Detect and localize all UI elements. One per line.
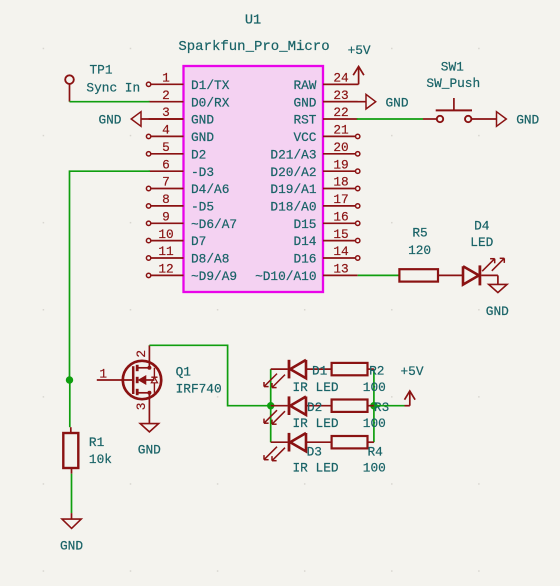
svg-text:GND: GND	[516, 112, 539, 127]
svg-text:14: 14	[333, 244, 349, 259]
svg-text:U1: U1	[245, 13, 261, 28]
svg-text:GND: GND	[293, 95, 316, 110]
svg-text:R5: R5	[412, 226, 427, 241]
svg-text:3: 3	[134, 403, 149, 411]
svg-text:GND: GND	[98, 112, 121, 127]
svg-text:10: 10	[158, 227, 173, 242]
svg-text:D20/A2: D20/A2	[270, 165, 316, 180]
svg-text:1: 1	[162, 71, 170, 86]
svg-text:6: 6	[162, 157, 170, 172]
svg-text:Sync In: Sync In	[86, 81, 140, 96]
svg-text:17: 17	[333, 192, 348, 207]
svg-text:D1/TX: D1/TX	[191, 78, 230, 93]
svg-text:D16: D16	[293, 252, 316, 267]
svg-text:RAW: RAW	[293, 78, 316, 93]
svg-text:20: 20	[333, 140, 348, 155]
svg-text:21: 21	[333, 123, 349, 138]
svg-text:IRF740: IRF740	[176, 382, 222, 397]
svg-text:4: 4	[162, 123, 170, 138]
svg-text:100: 100	[363, 380, 386, 395]
svg-text:-D5: -D5	[191, 200, 214, 215]
svg-text:VCC: VCC	[293, 130, 316, 145]
svg-text:TP1: TP1	[89, 62, 112, 77]
svg-text:D8/A8: D8/A8	[191, 252, 229, 267]
svg-text:10k: 10k	[89, 452, 112, 467]
svg-text:RST: RST	[293, 113, 316, 128]
svg-text:100: 100	[363, 461, 386, 476]
svg-text:Q1: Q1	[176, 364, 192, 379]
svg-text:120: 120	[408, 243, 431, 258]
svg-text:R3: R3	[374, 400, 389, 415]
svg-text:GND: GND	[191, 130, 214, 145]
svg-text:GND: GND	[138, 443, 161, 458]
svg-text:12: 12	[158, 262, 173, 277]
svg-text:R4: R4	[368, 444, 384, 459]
svg-text:D19/A1: D19/A1	[270, 182, 316, 197]
svg-text:D2: D2	[307, 400, 322, 415]
svg-text:23: 23	[333, 88, 348, 103]
svg-text:R2: R2	[369, 363, 384, 378]
svg-text:GND: GND	[191, 113, 214, 128]
svg-text:D18/A0: D18/A0	[270, 200, 316, 215]
svg-text:D2: D2	[191, 147, 206, 162]
svg-text:7: 7	[162, 175, 170, 190]
svg-text:+5V: +5V	[348, 43, 371, 58]
svg-text:D21/A3: D21/A3	[270, 147, 316, 162]
svg-text:LED: LED	[470, 235, 493, 250]
svg-text:D7: D7	[191, 234, 206, 249]
svg-text:IR LED: IR LED	[293, 380, 339, 395]
svg-text:16: 16	[333, 210, 348, 225]
svg-text:-D3: -D3	[191, 165, 214, 180]
svg-text:~D6/A7: ~D6/A7	[191, 217, 237, 232]
svg-text:IR LED: IR LED	[293, 416, 339, 431]
svg-text:GND: GND	[386, 95, 409, 110]
svg-text:100: 100	[363, 416, 386, 431]
svg-text:19: 19	[333, 157, 348, 172]
svg-text:2: 2	[134, 350, 149, 358]
svg-text:~D10/A10: ~D10/A10	[255, 269, 316, 284]
svg-text:D15: D15	[293, 217, 316, 232]
svg-text:SW1: SW1	[441, 59, 464, 74]
svg-text:3: 3	[162, 105, 170, 120]
svg-text:D14: D14	[293, 234, 316, 249]
svg-text:D1: D1	[312, 363, 328, 378]
svg-text:GND: GND	[60, 538, 83, 553]
svg-text:D4/A6: D4/A6	[191, 182, 229, 197]
svg-text:+5V: +5V	[400, 364, 423, 379]
svg-text:15: 15	[333, 227, 348, 242]
svg-text:IR LED: IR LED	[293, 461, 339, 476]
svg-text:11: 11	[158, 244, 174, 259]
svg-text:D3: D3	[307, 444, 322, 459]
svg-text:1: 1	[99, 367, 107, 382]
svg-text:8: 8	[162, 192, 170, 207]
svg-text:13: 13	[333, 262, 348, 277]
svg-text:18: 18	[333, 175, 348, 190]
svg-text:SW_Push: SW_Push	[426, 76, 480, 91]
svg-text:R1: R1	[89, 435, 105, 450]
svg-text:24: 24	[333, 71, 349, 86]
svg-text:5: 5	[162, 140, 170, 155]
svg-text:D4: D4	[474, 219, 490, 234]
svg-text:22: 22	[333, 105, 348, 120]
svg-text:~D9/A9: ~D9/A9	[191, 269, 237, 284]
svg-text:D0/RX: D0/RX	[191, 95, 230, 110]
svg-text:2: 2	[162, 88, 170, 103]
svg-text:Sparkfun_Pro_Micro: Sparkfun_Pro_Micro	[178, 39, 329, 55]
svg-text:GND: GND	[486, 304, 509, 319]
svg-text:9: 9	[162, 210, 170, 225]
